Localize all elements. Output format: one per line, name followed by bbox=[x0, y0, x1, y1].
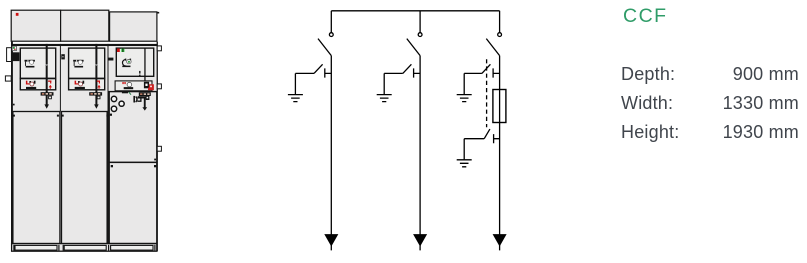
red lock mark panel 1 bbox=[48, 81, 52, 89]
width row bbox=[621, 92, 799, 94]
wire drop branch 3 bbox=[499, 11, 501, 33]
door panel 3 upper bbox=[109, 92, 157, 163]
ground bbox=[457, 160, 472, 167]
height row bbox=[621, 121, 799, 123]
right tab 1 bbox=[157, 46, 161, 51]
depth row bbox=[621, 63, 799, 65]
configuration title bbox=[623, 5, 668, 28]
plate 1 divider bbox=[20, 78, 56, 80]
busbar bbox=[331, 10, 499, 12]
front plate panel 3 bbox=[116, 48, 153, 76]
hinge dots door 3 bbox=[110, 114, 112, 116]
fuse branch 3 bbox=[493, 90, 506, 123]
mimic glyph panel 2 bbox=[73, 60, 83, 68]
hinge dots doors 1-2 bbox=[13, 115, 15, 117]
panel 3 shaft line bbox=[144, 48, 145, 81]
shaft coupler gap panel 2 bbox=[95, 65, 98, 67]
feeder wire branch 2 bbox=[419, 56, 421, 251]
blade bbox=[482, 64, 491, 73]
plinth segment 1 bbox=[15, 245, 57, 250]
ground bbox=[288, 95, 303, 102]
panel boundary line 1-2 bbox=[60, 44, 61, 112]
door 3 tee assembly bbox=[137, 95, 149, 110]
shaft coupler gap panel 1 bbox=[45, 65, 48, 67]
door panel 3 lower bbox=[109, 162, 157, 243]
ground bbox=[377, 95, 392, 102]
front plate panel 2 bbox=[69, 48, 105, 90]
strip handle block bbox=[144, 82, 149, 89]
terminal branch 3 bbox=[498, 33, 502, 37]
left small tab bbox=[5, 76, 11, 81]
right tab 2 bbox=[157, 84, 161, 89]
strip red marks bbox=[122, 82, 123, 84]
band lower highlight bbox=[13, 46, 157, 47]
black cable box left bbox=[11, 52, 19, 61]
red lock mark panel 2 bbox=[97, 81, 101, 89]
wire bbox=[464, 72, 482, 74]
plate 2 divider bbox=[68, 78, 105, 80]
plinth outer bbox=[12, 244, 157, 252]
contact bar bbox=[494, 134, 500, 143]
door 3 green tick bbox=[129, 92, 131, 95]
wire to ground bbox=[463, 73, 465, 94]
left indicator box bbox=[12, 46, 16, 50]
green indicator bbox=[13, 47, 15, 49]
switch blade branch 2 bbox=[407, 39, 420, 56]
earth switch branch 3 upper bbox=[457, 64, 500, 101]
wire to ground bbox=[463, 139, 465, 160]
feeder arrow branch 2 bbox=[414, 235, 426, 245]
panel 3 green indicator bbox=[121, 49, 124, 53]
earth switch branch 3 lower bbox=[457, 129, 500, 167]
contact bar bbox=[493, 68, 500, 77]
plinth segment 2 bbox=[64, 245, 106, 250]
label plaque panel 2 bbox=[75, 81, 85, 89]
roof step right bbox=[157, 12, 159, 14]
strip black bar bbox=[124, 87, 134, 89]
right wall bbox=[157, 42, 158, 252]
panel 3 mimic rotary arrow bbox=[122, 59, 131, 68]
plinth feet ticks bbox=[13, 245, 14, 251]
strip red blob bbox=[148, 84, 154, 90]
blade bbox=[403, 64, 412, 73]
panel 3 red indicator bbox=[117, 49, 120, 53]
roof box 3 bbox=[110, 12, 157, 41]
wire to ground bbox=[383, 73, 385, 94]
feeder wire branch 3 bbox=[499, 56, 501, 251]
contact bar bbox=[414, 68, 421, 77]
mimic glyph panel 1 bbox=[25, 60, 35, 68]
shaft arrow panel 2 bbox=[94, 104, 99, 108]
contact bar bbox=[325, 68, 332, 77]
cabinet body bbox=[11, 41, 157, 246]
door 3 operation hole A bbox=[111, 96, 116, 101]
door 3 operation hole B bbox=[119, 101, 124, 106]
strip circle bbox=[127, 82, 132, 87]
red indicator speck bbox=[14, 49, 15, 50]
door panel 2 bbox=[62, 112, 108, 244]
switch blade branch 3 bbox=[486, 39, 499, 56]
terminal branch 1 bbox=[329, 33, 333, 37]
label plaque panel 1 bbox=[26, 81, 36, 89]
wire drop branch 2 bbox=[419, 11, 421, 33]
ground bbox=[457, 95, 472, 102]
wire bbox=[295, 72, 314, 74]
wire bbox=[384, 72, 403, 74]
terminal branch 2 bbox=[418, 33, 422, 37]
roof box 1 bbox=[11, 10, 60, 41]
earth switch branch 1 bbox=[288, 64, 331, 101]
operating shaft panel 2 bbox=[95, 44, 97, 105]
panel 3 wall stub bbox=[108, 58, 113, 61]
wire to ground bbox=[294, 73, 296, 94]
door 3 top bar mark bbox=[122, 91, 128, 93]
plinth segment 3 bbox=[111, 245, 153, 250]
switchgear cabinet front view bbox=[0, 0, 540, 263]
divider indicator box 1-2 bbox=[61, 54, 65, 59]
wire drop branch 1 bbox=[330, 11, 332, 33]
blade bbox=[314, 64, 323, 73]
earth switch branch 2 bbox=[377, 64, 420, 101]
feeder wire branch 1 bbox=[330, 56, 332, 251]
left wall dot bbox=[13, 104, 15, 106]
roof box 2 bbox=[61, 10, 109, 41]
right tab 3 bbox=[157, 146, 161, 151]
door 3 operation hole C bbox=[111, 106, 116, 111]
blade bbox=[484, 129, 490, 139]
feeder arrow branch 1 bbox=[325, 235, 337, 245]
left wall bbox=[11, 42, 13, 252]
door 3 fuse rail bbox=[139, 92, 151, 96]
switch blade branch 1 bbox=[318, 39, 331, 56]
panel boundary line 2-3 bbox=[108, 44, 109, 244]
panel 3 label strip bbox=[115, 81, 152, 91]
operating shaft panel 1 bbox=[46, 44, 48, 105]
single line diagram bbox=[267, 0, 807, 263]
shaft arrow panel 1 bbox=[44, 104, 49, 108]
fuse rail panel 1 bbox=[41, 92, 54, 99]
door 3 handle bar bbox=[133, 96, 135, 103]
door panel 1 bbox=[13, 112, 60, 244]
red marker roof bbox=[16, 13, 19, 16]
feeder arrow branch 3 bbox=[494, 235, 506, 245]
busbar black band bbox=[11, 44, 157, 46]
panel 3 info mark bbox=[139, 71, 140, 74]
fuse rail panel 2 bbox=[89, 92, 102, 99]
top band gap strip bbox=[11, 42, 157, 44]
interlock dashed link bbox=[486, 59, 488, 127]
front plate panel 1 bbox=[20, 48, 55, 90]
left utility tab bbox=[7, 48, 12, 62]
wire bbox=[464, 138, 484, 140]
